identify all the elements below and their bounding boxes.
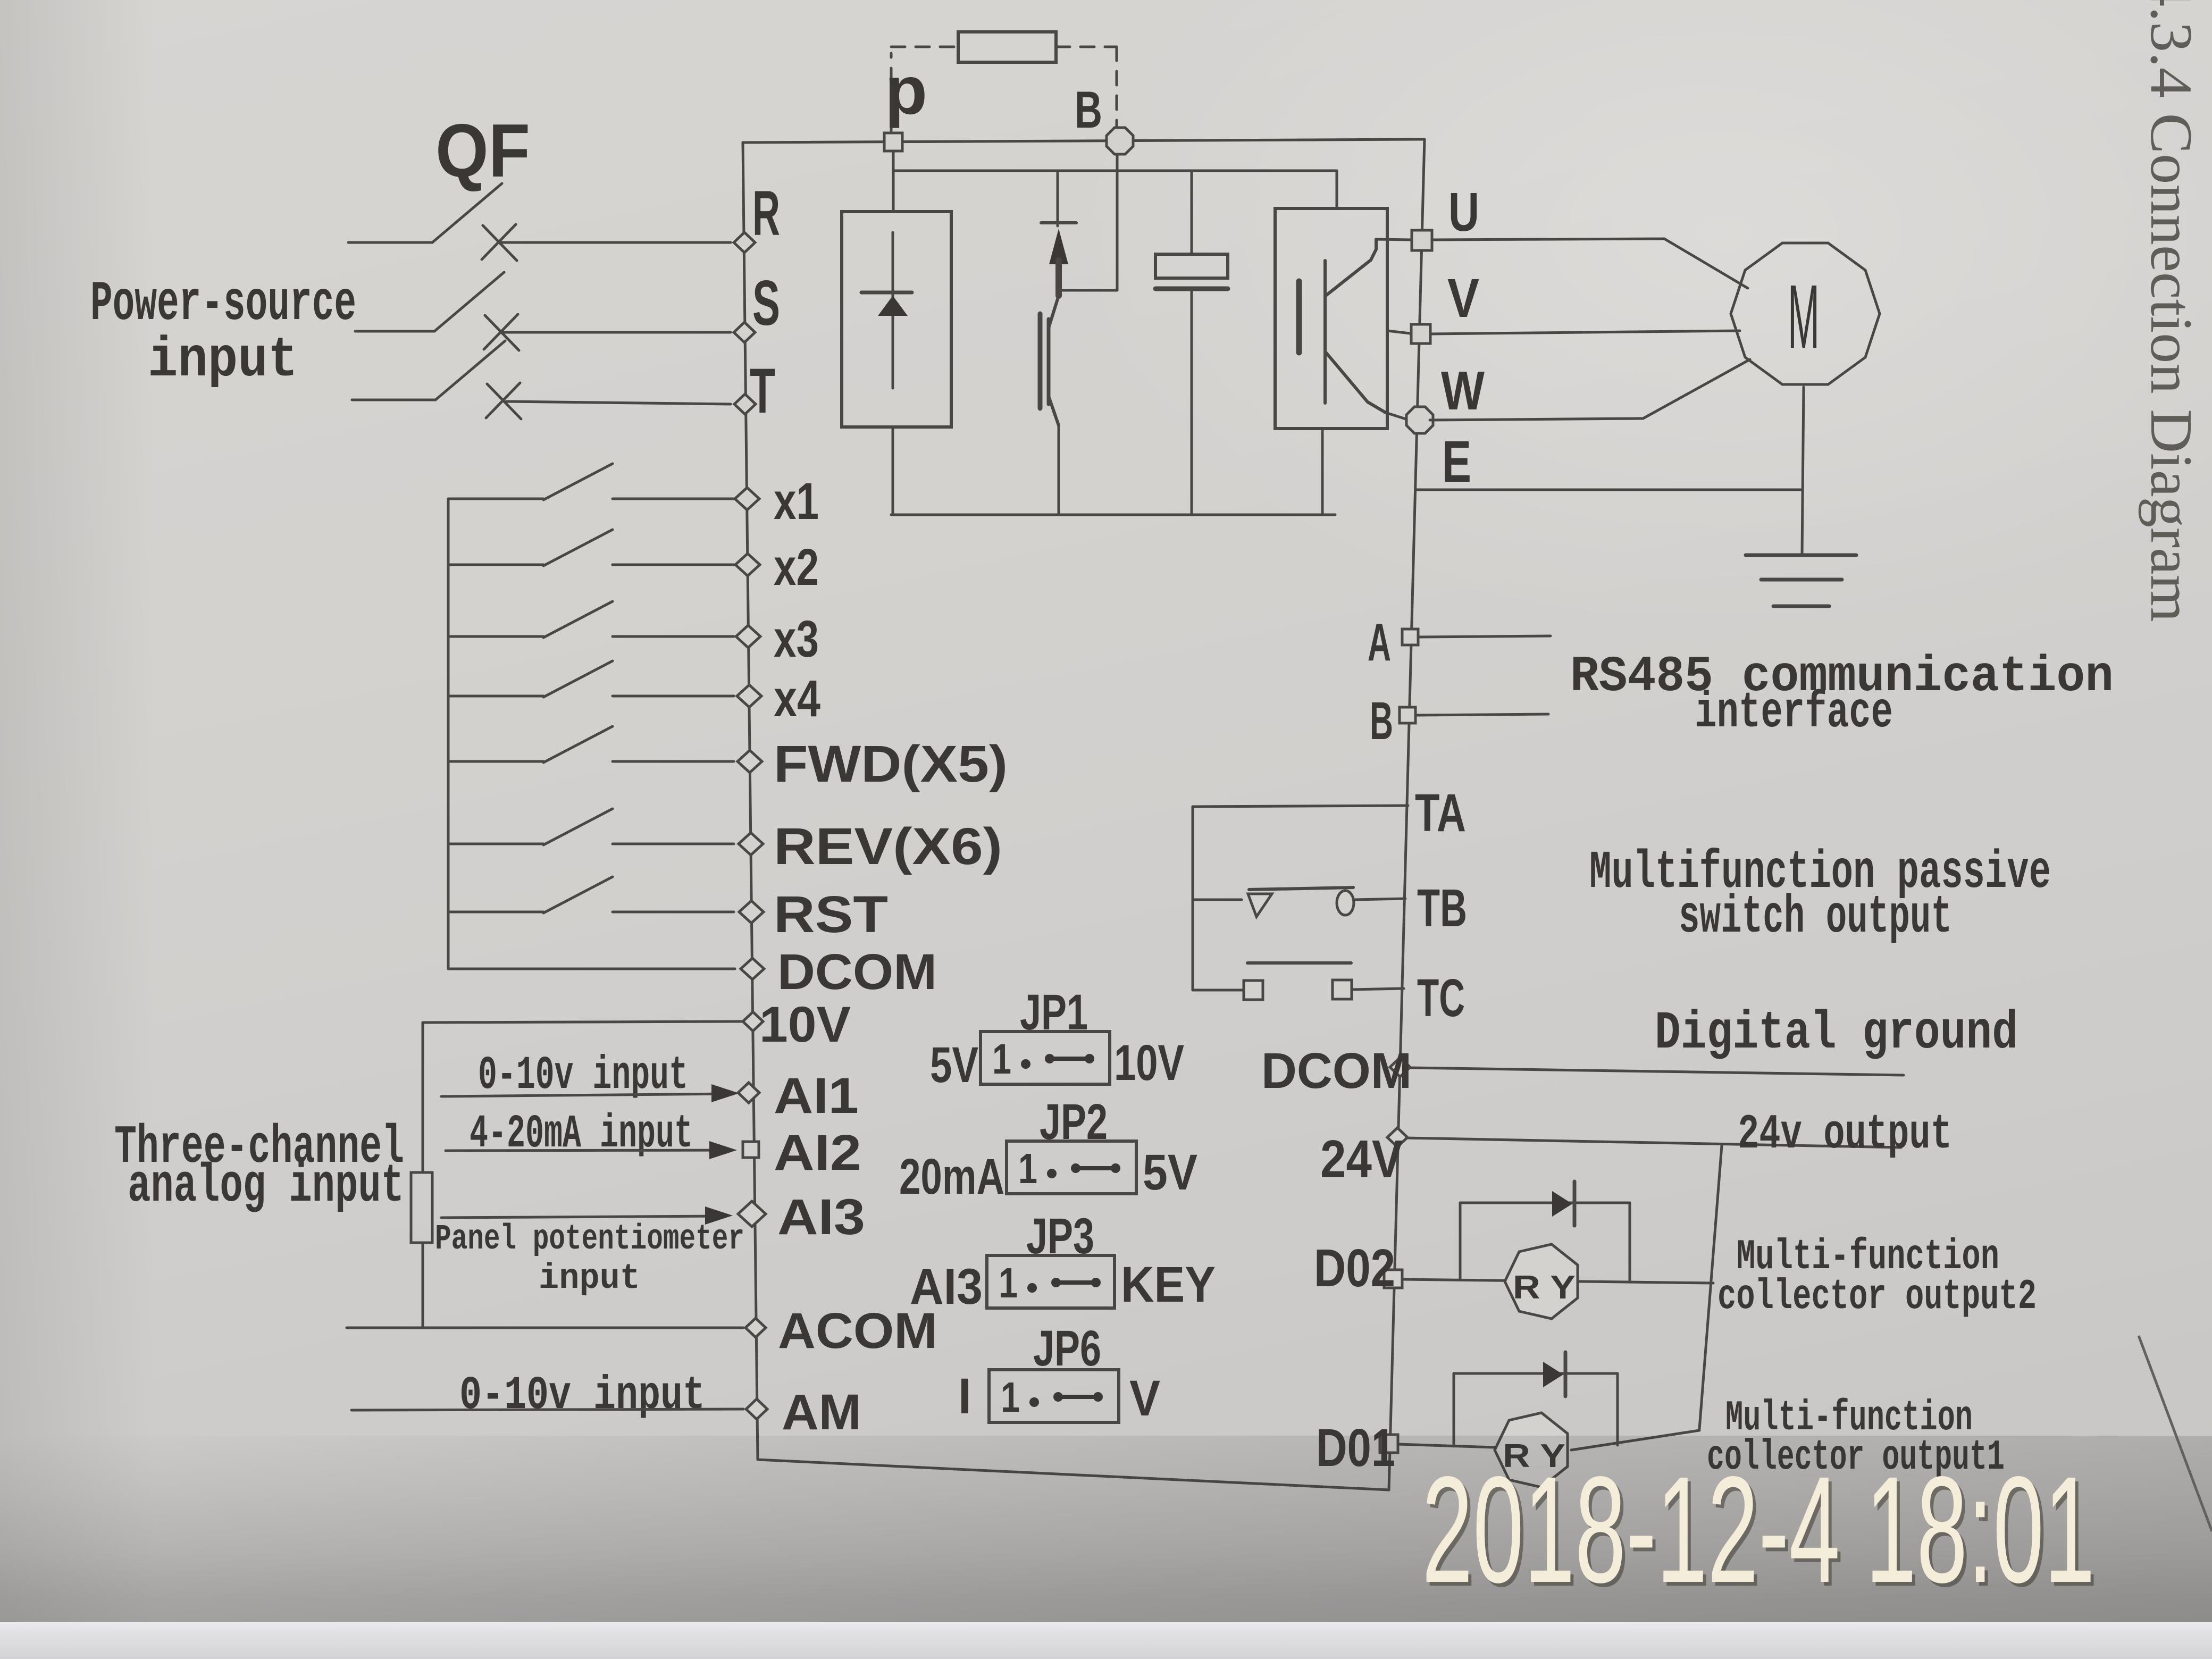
switch x4 blade xyxy=(543,661,613,697)
JP6 pin1 dot xyxy=(1029,1397,1039,1407)
terminal 24V xyxy=(1387,1128,1407,1147)
wire RST from bus xyxy=(448,911,543,914)
wire AI3 xyxy=(441,1216,725,1218)
wire 24v drop xyxy=(1699,1146,1722,1429)
wire capacitor bottom stem xyxy=(1191,289,1193,515)
breaker QF blade S xyxy=(434,272,504,331)
wire T input xyxy=(352,399,435,401)
relay TB arrow contact xyxy=(1248,894,1272,917)
DO1 diode loop right xyxy=(1616,1373,1619,1445)
capacitor plate bottom xyxy=(1155,287,1228,291)
wire x4 to terminal xyxy=(613,695,734,698)
chopper IGBT ce bar xyxy=(1047,319,1051,404)
fuse X mark T s1 xyxy=(487,384,521,419)
wire rectifier bottom xyxy=(892,427,894,515)
switch FWD(X5) blade xyxy=(543,726,613,763)
wire TC xyxy=(1352,988,1404,990)
terminal A xyxy=(1402,629,1418,645)
fuse X mark R s1 xyxy=(483,225,517,261)
wire A xyxy=(1419,636,1551,637)
switch REV(X6) blade xyxy=(543,809,613,845)
terminal B2 xyxy=(1400,707,1415,723)
wire TA xyxy=(1193,806,1408,807)
DO1 diode loop left xyxy=(1453,1373,1455,1446)
jumper JP1 box xyxy=(981,1032,1110,1084)
relay TC contact right xyxy=(1333,980,1352,999)
wire P stem dashed xyxy=(890,53,893,131)
wire inverter bottom stem xyxy=(1321,429,1324,515)
motor M circle xyxy=(1731,243,1880,384)
chopper diode arrow up xyxy=(1049,229,1068,264)
wire DO2 xyxy=(1402,1279,1713,1283)
wire B to chopper xyxy=(1059,289,1117,292)
ground bar 2 xyxy=(1761,578,1842,582)
inverter IGBT emitter exit xyxy=(1368,402,1386,413)
chopper IGBT collector xyxy=(1049,296,1059,328)
arrowhead AI2 xyxy=(709,1141,737,1159)
box bottom edge xyxy=(758,1460,1389,1490)
wire TB xyxy=(1354,899,1405,900)
analog box edge upper xyxy=(422,1023,424,1172)
terminal R xyxy=(734,232,755,253)
relay left rail xyxy=(1192,807,1194,990)
node B xyxy=(1107,128,1133,154)
rectifier diode triangle xyxy=(878,296,908,316)
JP3 pin1 dot xyxy=(1027,1283,1037,1293)
JP3 jumper bar xyxy=(1056,1280,1096,1285)
switch x2 blade xyxy=(543,530,613,566)
analog box edge lower xyxy=(422,1243,424,1328)
wire P to rectifier xyxy=(892,152,895,212)
relay TC contact left xyxy=(1244,981,1263,1000)
svg-text:2018-12-4 18:01: 2018-12-4 18:01 xyxy=(1422,1445,2095,1614)
fuse X mark S s1 xyxy=(485,315,519,350)
inverter IGBT ce line xyxy=(1323,261,1327,403)
terminal AM xyxy=(746,1399,767,1419)
digital input left bus xyxy=(447,499,450,969)
wire S input xyxy=(355,330,434,333)
terminal P xyxy=(884,133,902,151)
wire R input xyxy=(348,241,432,244)
wire AM xyxy=(351,1409,743,1410)
chopper diode shaft xyxy=(1055,261,1062,296)
inverter block xyxy=(1275,208,1387,429)
wire chopper top xyxy=(1057,171,1059,226)
DC+ rail xyxy=(893,170,1337,172)
wire x2 to terminal xyxy=(613,564,734,566)
wire x3 to terminal xyxy=(613,635,734,638)
jumper JP6 box xyxy=(989,1370,1119,1422)
terminal U xyxy=(1412,230,1432,250)
jumper JP2 box xyxy=(1007,1141,1136,1194)
arrowhead AI3 xyxy=(705,1206,733,1225)
terminal ACOM xyxy=(745,1318,766,1337)
terminal x2 xyxy=(735,554,760,576)
terminal 10V xyxy=(743,1012,763,1031)
wire U to motor xyxy=(1432,239,1664,240)
wire AI1 xyxy=(441,1094,732,1096)
terminal DO2 xyxy=(1384,1270,1402,1288)
wire E xyxy=(1415,489,1803,491)
DO2 diode loop right xyxy=(1629,1203,1631,1281)
chopper IGBT emitter xyxy=(1049,396,1059,425)
terminal DO1 xyxy=(1380,1435,1398,1453)
wire FWD(X5) from bus xyxy=(448,760,543,763)
inverter IGBT emitter slant xyxy=(1325,351,1368,402)
terminal REV(X6) xyxy=(739,833,763,855)
wire U slant xyxy=(1664,239,1748,288)
wire DO1 right xyxy=(1571,1430,1699,1450)
terminal S xyxy=(734,322,755,342)
wire x1 to terminal xyxy=(613,498,734,500)
wire S to terminal xyxy=(503,331,731,334)
node W xyxy=(1406,407,1433,433)
terminal T xyxy=(734,394,756,414)
wire inverter top stem xyxy=(1336,171,1338,208)
panel potentiometer xyxy=(411,1172,432,1243)
JP6 jumper bar dot left xyxy=(1053,1392,1063,1402)
terminal AI1 xyxy=(738,1083,759,1103)
DO1 diode bar xyxy=(1564,1352,1568,1396)
rectifier diode lead xyxy=(892,232,894,388)
relay coil RY 2 xyxy=(1505,1244,1578,1319)
wire dashed to B xyxy=(1116,47,1118,127)
terminal DCOM right xyxy=(1390,1058,1410,1077)
inverter IGBT collector slant xyxy=(1325,260,1371,296)
wire capacitor top stem xyxy=(1191,171,1193,254)
relay coil RY 1 xyxy=(1495,1413,1568,1487)
wire AI2 xyxy=(446,1150,730,1151)
wire inverter to U xyxy=(1376,239,1412,240)
inverter IGBT gate bar xyxy=(1296,281,1302,353)
wire digital ground xyxy=(1409,1068,1904,1075)
DO1 flyback diode xyxy=(1543,1362,1563,1387)
DO2 diode bar xyxy=(1573,1182,1577,1226)
wire ACOM xyxy=(347,1327,743,1329)
DO2 diode loop left xyxy=(1459,1203,1462,1279)
wire dashed top left xyxy=(891,46,958,48)
JP1 jumper bar xyxy=(1050,1057,1090,1061)
wire REV(X6) from bus xyxy=(448,843,543,845)
breaker QF blade R xyxy=(432,183,502,242)
switch x1 blade xyxy=(543,464,613,500)
wire 10V xyxy=(423,1021,743,1023)
chopper IGBT gate bar xyxy=(1038,314,1043,408)
JP6 jumper bar xyxy=(1058,1395,1098,1399)
terminal FWD(X5) xyxy=(738,750,762,773)
JP3 jumper bar dot right xyxy=(1091,1278,1101,1287)
wire B2 xyxy=(1416,714,1548,715)
inverter IGBT collector hook xyxy=(1371,239,1376,260)
wire inverter to W xyxy=(1386,413,1406,419)
wire x1 from bus xyxy=(448,498,543,500)
DO2 diode loop top xyxy=(1460,1202,1630,1204)
breaker QF blade T xyxy=(435,341,505,400)
wire 24v output xyxy=(1406,1138,1901,1147)
jumper JP3 box xyxy=(987,1255,1115,1308)
wire motor ground stem xyxy=(1802,387,1804,555)
wire x2 from bus xyxy=(448,564,543,566)
box right edge bus xyxy=(1389,139,1425,1490)
relay TB oval contact xyxy=(1337,891,1354,915)
JP1 jumper bar dot right xyxy=(1085,1054,1094,1063)
ground bar 1 xyxy=(1746,554,1856,557)
chopper diode bar xyxy=(1041,221,1076,224)
DO1 diode loop top xyxy=(1454,1372,1618,1375)
wire RST to terminal xyxy=(613,911,734,914)
wire DCOM from bus xyxy=(448,968,735,970)
terminal x4 xyxy=(737,685,761,707)
wire x4 from bus xyxy=(448,695,543,698)
fuse X mark R s2 xyxy=(482,224,516,259)
terminal DCOM xyxy=(741,958,764,979)
box left edge xyxy=(743,143,758,1460)
rectifier diode cathode bar xyxy=(861,291,912,295)
fuse X mark T s2 xyxy=(486,383,520,418)
JP2 jumper bar dot right xyxy=(1111,1163,1120,1173)
terminal x1 xyxy=(735,488,759,510)
wire T to terminal xyxy=(506,401,731,404)
relay TB blade bar xyxy=(1249,887,1353,890)
wire TC left xyxy=(1193,989,1244,992)
wire V to motor xyxy=(1430,331,1740,334)
terminal RST xyxy=(739,901,764,923)
DC- rail xyxy=(891,514,1335,516)
relay TC bar xyxy=(1247,961,1351,965)
ground bar 3 xyxy=(1773,605,1829,608)
wire DO1 left xyxy=(1398,1444,1495,1447)
wire inverter to V xyxy=(1387,331,1410,333)
wire W slant xyxy=(1643,359,1750,418)
JP6 jumper bar dot right xyxy=(1093,1392,1103,1402)
wire chopper emitter down xyxy=(1058,425,1060,515)
terminal V xyxy=(1411,324,1430,343)
wire REV(X6) to terminal xyxy=(613,843,734,845)
brake resistor xyxy=(958,32,1056,62)
wire x3 from bus xyxy=(448,635,543,638)
wire TB left xyxy=(1193,899,1242,901)
wire B drop xyxy=(1116,155,1119,290)
arrowhead AI1 xyxy=(711,1084,739,1102)
JP2 pin1 dot xyxy=(1047,1169,1057,1178)
terminal x3 xyxy=(736,625,760,648)
wire FWD(X5) to terminal xyxy=(613,760,734,763)
JP1 jumper bar dot left xyxy=(1045,1054,1054,1063)
switch RST blade xyxy=(543,877,613,913)
box top edge xyxy=(743,139,1425,143)
JP3 jumper bar dot left xyxy=(1051,1278,1061,1287)
capacitor plate top xyxy=(1155,254,1228,278)
page edge diagonal xyxy=(2139,1336,2212,1531)
DO2 flyback diode xyxy=(1552,1191,1572,1217)
wire W to motor xyxy=(1430,418,1643,420)
JP1 pin1 dot xyxy=(1021,1059,1030,1069)
terminal AI2 xyxy=(743,1142,759,1158)
switch x3 blade xyxy=(543,601,613,638)
fuse X mark S s2 xyxy=(484,314,518,349)
wire dashed top right xyxy=(1056,46,1117,48)
rectifier block xyxy=(842,212,951,427)
terminal AI3 xyxy=(738,1201,766,1227)
wire R to terminal xyxy=(500,241,731,244)
JP2 jumper bar xyxy=(1076,1166,1116,1170)
JP2 jumper bar dot left xyxy=(1071,1163,1080,1173)
